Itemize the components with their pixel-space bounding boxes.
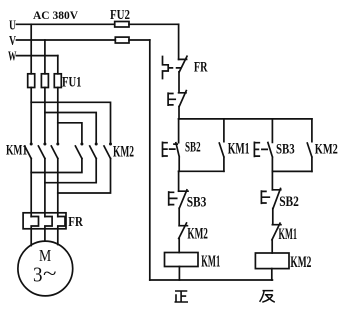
coil KM1 xyxy=(165,253,199,267)
fuse FU2 (V phase) xyxy=(115,37,129,43)
wire node to SB3 xyxy=(178,171,180,191)
push button SB2 NC (right branch) xyxy=(272,189,280,209)
fuse FU1 phase 1 xyxy=(28,74,35,88)
svg-text:SB2: SB2 xyxy=(279,194,299,210)
wire stop to node xyxy=(178,107,180,119)
svg-text:KM1: KM1 xyxy=(6,143,27,159)
FR heater element 1 xyxy=(31,217,38,246)
contactor KM1 main contact 1 xyxy=(25,146,32,159)
stop button E actuator xyxy=(168,93,175,105)
wire FR to stop button xyxy=(178,72,180,92)
SB2 right E actuator xyxy=(261,191,269,203)
svg-text:3: 3 xyxy=(33,263,43,287)
wire control rail left (from V) xyxy=(149,40,151,280)
wire W drop to FU1 xyxy=(57,56,59,74)
svg-text:FU2: FU2 xyxy=(110,7,130,22)
push button SB3 NO (right branch) xyxy=(268,119,273,171)
svg-text:KM1: KM1 xyxy=(279,226,298,243)
contact KM1 NC interlock xyxy=(272,223,281,240)
wire node bottom right pair xyxy=(272,170,312,172)
svg-text:SB2: SB2 xyxy=(185,140,201,156)
push button SB2 NO xyxy=(174,119,179,171)
node W phase rail xyxy=(17,55,58,57)
wire KM2 output merge phase2 xyxy=(45,159,96,183)
wire U drop to control circuit xyxy=(178,24,180,59)
node V phase rail xyxy=(17,39,150,41)
SB3 E actuator xyxy=(169,192,177,205)
node U phase rail xyxy=(17,23,179,25)
FR heater element 2 xyxy=(45,217,52,242)
svg-text:V: V xyxy=(9,34,16,49)
wire control bottom rail xyxy=(150,279,273,281)
junction dots on main contacts xyxy=(30,143,112,146)
contactor KM1 main contact 2 xyxy=(38,146,45,159)
svg-text:SB3: SB3 xyxy=(276,141,295,157)
coil KM2 xyxy=(255,253,289,269)
contactor KM1 main contact 3 xyxy=(51,146,58,159)
svg-text:KM2: KM2 xyxy=(290,254,311,271)
wire SB2 to KM1 NC xyxy=(272,209,274,225)
push button SB3 NC xyxy=(179,190,188,208)
motor M circle xyxy=(18,241,73,296)
wire coil KM1 to bottom rail xyxy=(178,267,180,281)
wire crossover phase2 to KM2 middle xyxy=(45,113,96,145)
svg-text:FU1: FU1 xyxy=(62,74,82,90)
wire KM2 output merge phase1 xyxy=(31,159,82,173)
contact FR NC (control) xyxy=(177,56,187,72)
push button stop NC xyxy=(179,91,187,107)
label 反 (reverse) xyxy=(260,291,275,303)
fuse FU1 phase 2 xyxy=(41,74,48,88)
wire KM2 NC to coil KM1 xyxy=(178,239,180,253)
wire node bottom left pair xyxy=(179,170,224,172)
wire FU1 outputs down to KM1 contacts xyxy=(31,88,58,145)
svg-text:FR: FR xyxy=(194,60,208,76)
svg-text:KM2: KM2 xyxy=(113,143,134,160)
wire KM2 output merge phase3 xyxy=(58,159,111,194)
wire node to SB2 NC xyxy=(271,171,273,189)
svg-text:SB3: SB3 xyxy=(187,194,207,210)
wire V drop to FU1 xyxy=(44,40,46,74)
contactor KM2 main contact 1 xyxy=(75,146,82,159)
svg-text:W: W xyxy=(8,50,16,65)
contact KM2 NC interlock xyxy=(179,223,188,239)
contact KM1 aux NO xyxy=(219,119,224,171)
contact KM2 aux NO xyxy=(307,119,312,171)
wire KM1 NC to coil KM2 xyxy=(271,240,273,253)
label 正 (forward) xyxy=(175,291,189,302)
svg-text:KM1: KM1 xyxy=(228,141,250,158)
wire crossover phase3 to KM2 left xyxy=(58,123,82,144)
svg-text:KM2: KM2 xyxy=(187,225,208,242)
FR heater element 3 xyxy=(58,217,65,245)
thermal relay FR heater box xyxy=(23,213,66,229)
wire U drop to FU1 xyxy=(30,24,32,74)
svg-text:~: ~ xyxy=(43,263,57,285)
wire node top horizontal xyxy=(179,118,312,120)
SB2 E actuator xyxy=(163,142,175,156)
svg-text:FR: FR xyxy=(68,215,83,230)
wire KM1 contact outputs down xyxy=(31,159,58,217)
wire SB3 to KM2 NC xyxy=(178,208,180,226)
fuse FU2 (U phase) xyxy=(115,22,129,28)
svg-text:KM1: KM1 xyxy=(201,251,220,270)
SB3 right E actuator xyxy=(254,142,267,156)
fuse FU1 phase 3 xyxy=(54,74,61,88)
wire coil KM2 to bottom rail xyxy=(271,269,273,280)
svg-text:U: U xyxy=(9,18,16,33)
contactor KM2 main contact 2 xyxy=(90,146,97,159)
svg-text:AC 380V: AC 380V xyxy=(33,8,78,22)
FR release symbol xyxy=(163,57,173,79)
contactor KM2 main contact 3 xyxy=(104,146,111,159)
wire crossover phase1 to KM2 right xyxy=(31,102,110,144)
svg-text:KM2: KM2 xyxy=(315,141,338,157)
